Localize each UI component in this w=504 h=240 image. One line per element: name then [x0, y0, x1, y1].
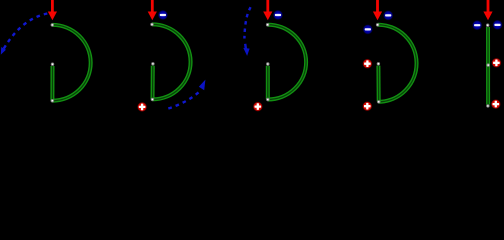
panel 4: red marker arrow — [373, 0, 382, 20]
panel 5: minus charge badge right — [492, 20, 502, 30]
panel 4: top terminal dot — [376, 24, 379, 27]
panel 1: top terminal dot — [51, 24, 54, 27]
panel 3: top terminal dot — [266, 23, 269, 26]
panel 5: plus charge badge 2 — [491, 99, 501, 109]
panel 2: plus charge badge — [137, 102, 147, 112]
panel 2: loop arc wire — [152, 24, 191, 99]
panel 5: red marker arrow — [483, 0, 492, 20]
panel 1: blue rotation arrowhead — [1, 47, 6, 55]
panel 3: blue dashed swing arrow (top, pointing down) — [244, 7, 250, 38]
panel 3: blue swing arrow shaft — [244, 44, 247, 49]
panel 3: minus charge badge — [273, 10, 283, 20]
panel 1: rod wire — [50, 66, 54, 101]
panel 3: loop arc wire — [268, 25, 307, 100]
panel 4: minus charge badge 1 — [383, 10, 393, 20]
panel 4: rod wire — [376, 66, 380, 102]
panel 4: mid terminal dot — [377, 63, 380, 66]
panel 2: blue rotation arrowhead — [199, 80, 206, 91]
panel 3: bottom joint dot — [267, 98, 270, 101]
panel 4: bottom joint dot — [377, 101, 380, 104]
panel 4: loop arc wire — [378, 25, 417, 102]
panel 2: minus charge badge — [158, 10, 168, 20]
panel 2: bottom joint dot — [151, 98, 154, 101]
panel 2: red marker arrow — [148, 0, 157, 20]
panel 1: mid terminal dot — [51, 63, 54, 66]
panel 4: plus charge badge 1 — [362, 59, 372, 69]
panel 5: minus charge badge left — [472, 20, 482, 30]
panel 2: blue dashed rotation arrow (lower right) — [168, 92, 199, 109]
panel 3: blue swing arrowhead — [243, 48, 249, 56]
panel 3: red marker arrow — [263, 0, 272, 20]
panel 3: plus charge badge — [253, 102, 263, 112]
panel 1: red marker arrow — [48, 0, 57, 20]
panel 4: plus charge badge 2 — [362, 101, 372, 111]
panel 3: rod wire — [266, 66, 270, 100]
panel 1: bottom joint dot — [51, 99, 54, 102]
panel 4: minus charge badge 2 — [363, 24, 373, 34]
panel 2: top terminal dot — [151, 23, 154, 26]
panel 5: bottom joint dot — [487, 105, 490, 108]
panel 2: rod wire — [151, 66, 155, 100]
panel 5: plus charge badge 1 — [491, 58, 501, 68]
panel 3: mid terminal dot — [267, 63, 270, 66]
panel 1: blue dashed rotation arrow (upper left) — [4, 14, 48, 50]
panel 2: mid terminal dot — [152, 63, 155, 66]
panel 5: edge-on loop wire — [486, 27, 490, 105]
panel 5: mid terminal dot — [487, 64, 490, 67]
panel 1: loop arc wire — [52, 25, 90, 101]
panel 5: top terminal dot — [486, 24, 489, 27]
